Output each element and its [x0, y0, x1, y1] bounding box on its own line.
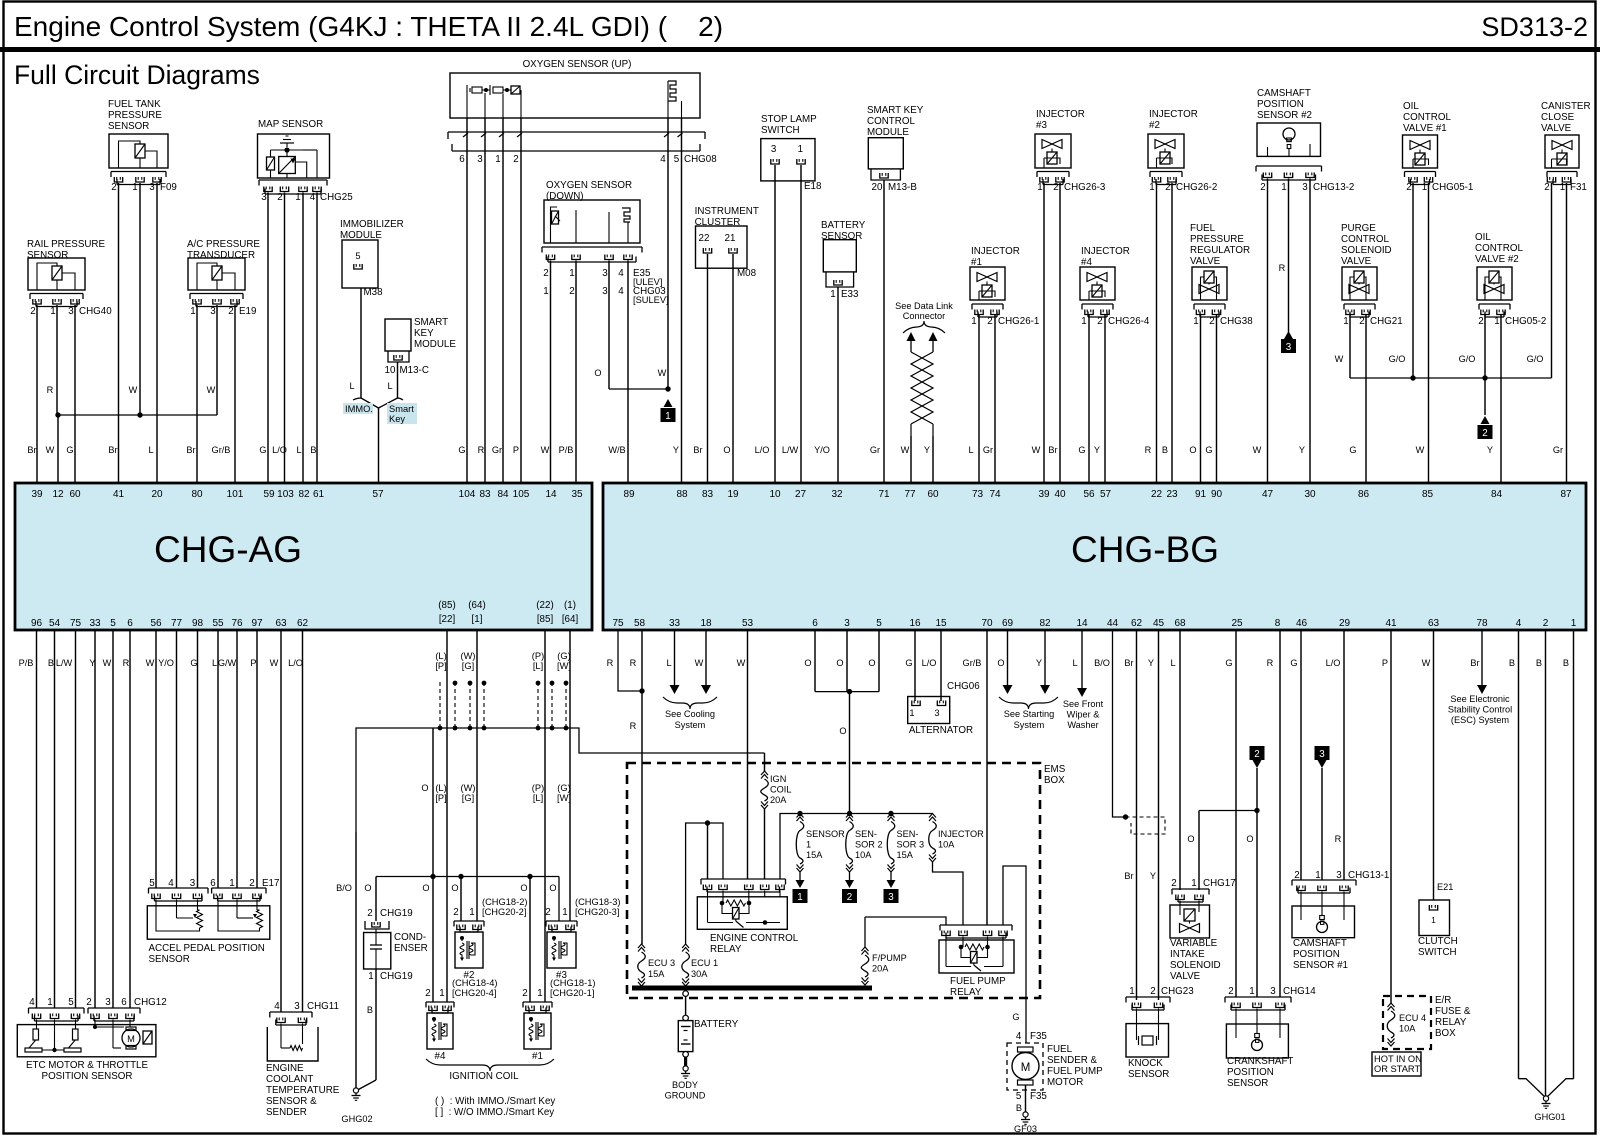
- wire RPS pin1 (R) to junction: [56, 305, 58, 415]
- svg-text:CHG17: CHG17: [1203, 878, 1236, 889]
- svg-text:3: 3: [149, 182, 155, 193]
- svg-text:M: M: [127, 1034, 135, 1044]
- svg-text:40: 40: [1054, 489, 1066, 500]
- svg-text:System: System: [675, 720, 706, 730]
- svg-text:1: 1: [1081, 316, 1086, 327]
- svg-text:69: 69: [1002, 618, 1014, 629]
- svg-text:6: 6: [121, 997, 127, 1008]
- svg-text:A/C PRESSURE: A/C PRESSURE: [187, 239, 260, 250]
- svg-text:L: L: [968, 445, 973, 455]
- svg-text:70: 70: [981, 618, 993, 629]
- svg-text:(P): (P): [532, 783, 544, 793]
- svg-text:R: R: [123, 658, 130, 668]
- svg-text:27: 27: [795, 489, 807, 500]
- svg-text:CHG26-1: CHG26-1: [998, 316, 1039, 327]
- svg-text:#2: #2: [1149, 120, 1160, 131]
- wire MAP pin4 to CHG-AG 61: [316, 193, 318, 484]
- svg-text:BODY: BODY: [672, 1080, 698, 1090]
- svg-text:IGNITION COIL: IGNITION COIL: [449, 1071, 519, 1082]
- svg-text:15A: 15A: [648, 969, 665, 979]
- svg-text:1: 1: [368, 971, 373, 982]
- svg-text:R: R: [1279, 263, 1286, 273]
- svg-text:SEN-: SEN-: [897, 829, 919, 839]
- svg-text:INTAKE: INTAKE: [1170, 949, 1205, 960]
- wire CCV pin1 to CHG-BG 87: [1566, 183, 1568, 483]
- svg-text:INJECTOR: INJECTOR: [971, 246, 1020, 257]
- wire CHG-BG 62 (Br) to knock sensor pin1: [1136, 630, 1138, 1000]
- connector block CHG-BG: [603, 483, 1586, 630]
- svg-text:(L): (L): [435, 783, 446, 793]
- svg-text:O: O: [1187, 834, 1194, 844]
- svg-text:Y: Y: [1148, 658, 1154, 668]
- svg-text:E/R: E/R: [1435, 995, 1451, 1006]
- svg-text:[L]: [L]: [533, 661, 543, 671]
- svg-text:1: 1: [569, 268, 574, 279]
- svg-text:L/O: L/O: [1326, 658, 1341, 668]
- svg-text:33: 33: [669, 618, 681, 629]
- wire FPRV pin2 to CHG-BG 90: [1216, 315, 1218, 483]
- svg-text:1: 1: [971, 316, 976, 327]
- svg-text:[64]: [64]: [562, 614, 579, 625]
- svg-text:(L): (L): [435, 651, 446, 661]
- svg-text:EMS: EMS: [1044, 764, 1066, 775]
- svg-text:R: R: [1145, 445, 1152, 455]
- flag 2 to crankshaft sensor: [1250, 746, 1265, 760]
- svg-text:45: 45: [1153, 618, 1165, 629]
- svg-text:2: 2: [1478, 316, 1483, 327]
- svg-text:ENGINE: ENGINE: [266, 1063, 304, 1074]
- svg-text:W: W: [1416, 445, 1425, 455]
- svg-text:SENSOR: SENSOR: [806, 829, 845, 839]
- svg-text:FUEL PUMP: FUEL PUMP: [950, 976, 1006, 987]
- svg-text:47: 47: [1262, 489, 1274, 500]
- svg-text:P: P: [1382, 658, 1388, 668]
- svg-text:1: 1: [562, 907, 567, 918]
- see starting system arrows: [1007, 630, 1009, 685]
- svg-text:61: 61: [313, 489, 325, 500]
- see cooling system arrows: [674, 630, 676, 685]
- svg-text:FUEL: FUEL: [1047, 1044, 1073, 1055]
- svg-text:Y: Y: [1094, 445, 1100, 455]
- svg-text:CHG26-3: CHG26-3: [1064, 182, 1106, 193]
- svg-text:G/O: G/O: [1459, 354, 1476, 364]
- svg-text:B: B: [310, 445, 316, 455]
- svg-text:Gr: Gr: [1553, 445, 1563, 455]
- svg-text:IMMOBILIZER: IMMOBILIZER: [340, 219, 404, 230]
- wire MAP pin2 to CHG-AG 103: [284, 193, 286, 484]
- E/R fuse and relay box (dashed): [1383, 996, 1431, 1049]
- svg-text:O: O: [723, 445, 730, 455]
- svg-text:76: 76: [231, 618, 243, 629]
- svg-text:(64): (64): [468, 600, 485, 611]
- wire cluster pin21 to CHG-BG 19: [732, 254, 734, 483]
- wire cluster pin22 to CHG-BG 83: [707, 254, 709, 483]
- svg-text:1: 1: [1571, 618, 1577, 629]
- svg-text:CHG11: CHG11: [307, 1001, 339, 1012]
- svg-text:CHG05-1: CHG05-1: [1432, 182, 1473, 193]
- ground GF03: [1023, 1112, 1028, 1117]
- svg-text:POSITION: POSITION: [1257, 99, 1304, 110]
- wire CHG-BG 78 (Br) arrow to ESC: [1481, 630, 1483, 685]
- svg-text:3: 3: [844, 618, 850, 629]
- coil O-supply horizontal: [376, 876, 559, 878]
- svg-text:20: 20: [872, 182, 883, 193]
- svg-text:W: W: [1422, 658, 1431, 668]
- svg-text:4: 4: [274, 1001, 280, 1012]
- svg-text:VALVE: VALVE: [1170, 971, 1201, 982]
- svg-text:OXYGEN SENSOR: OXYGEN SENSOR: [546, 180, 632, 191]
- svg-text:MODULE: MODULE: [414, 339, 456, 350]
- svg-text:POSITION SENSOR: POSITION SENSOR: [42, 1071, 133, 1082]
- svg-text:5: 5: [674, 154, 680, 165]
- svg-text:FUEL: FUEL: [1190, 223, 1216, 234]
- svg-text:39: 39: [1038, 489, 1050, 500]
- svg-text:74: 74: [989, 489, 1001, 500]
- svg-text:W: W: [270, 658, 279, 668]
- svg-text:44: 44: [1107, 618, 1119, 629]
- svg-text:W: W: [695, 658, 704, 668]
- wires through connector down to coils: [446, 682, 448, 1002]
- wire CHG-BG 58 (R) to ECU3 fuse: [641, 630, 643, 944]
- wire MAP pin3 to CHG-AG 59: [267, 193, 269, 484]
- svg-text:39: 39: [31, 489, 43, 500]
- svg-text:FUEL PUMP: FUEL PUMP: [1047, 1066, 1103, 1077]
- svg-text:Br: Br: [1048, 445, 1057, 455]
- svg-text:(CHG18-4): (CHG18-4): [452, 978, 497, 988]
- wire data link W to CHG-BG 77: [910, 436, 912, 483]
- svg-text:GROUND: GROUND: [665, 1091, 706, 1101]
- wire O2down pin2 to CHG-AG 14: [550, 261, 552, 484]
- svg-text:Y: Y: [1150, 871, 1156, 881]
- svg-text:O: O: [364, 883, 371, 893]
- svg-text:CHG08: CHG08: [684, 154, 717, 165]
- svg-text:L: L: [1170, 658, 1175, 668]
- svg-text:MODULE: MODULE: [867, 127, 909, 138]
- wire CHG-BG 16 to alternator pin1: [914, 630, 916, 701]
- svg-text:#3: #3: [1036, 120, 1047, 131]
- svg-text:See Electronic: See Electronic: [1450, 694, 1510, 704]
- svg-text:G/W: G/W: [218, 658, 237, 668]
- wire O to coil2: [460, 877, 462, 922]
- ignition coil signal wires from CHG-AG: [446, 630, 448, 682]
- svg-text:P: P: [513, 445, 519, 455]
- svg-text:O: O: [839, 726, 846, 736]
- svg-text:3: 3: [602, 268, 608, 279]
- flag 3 to camshaft sensor #1: [1315, 746, 1330, 760]
- svg-text:2: 2: [1544, 182, 1549, 193]
- wire OCV1 pin2 (G/O) to junction: [1412, 183, 1414, 378]
- svg-text:COND-: COND-: [394, 932, 426, 943]
- svg-text:W: W: [658, 368, 667, 378]
- svg-text:Y/O: Y/O: [814, 445, 830, 455]
- svg-text:[CHG20-2]: [CHG20-2]: [482, 907, 526, 917]
- svg-text:78: 78: [1476, 618, 1488, 629]
- svg-text:B/O: B/O: [1094, 658, 1110, 668]
- svg-text:1: 1: [537, 988, 542, 999]
- svg-text:[CHG20-3]: [CHG20-3]: [575, 907, 619, 917]
- svg-text:[G]: [G]: [462, 793, 474, 803]
- svg-text:2: 2: [1150, 986, 1155, 997]
- svg-text:L: L: [296, 445, 301, 455]
- wire FTPS pin1 (W) to junction: [139, 183, 141, 415]
- svg-text:SWITCH: SWITCH: [761, 125, 800, 136]
- svg-text:5: 5: [355, 251, 360, 261]
- svg-text:ECU 1: ECU 1: [691, 958, 718, 968]
- svg-text:SENSOR #2: SENSOR #2: [1257, 110, 1312, 121]
- svg-text:1: 1: [1560, 182, 1565, 193]
- svg-text:O: O: [451, 883, 458, 893]
- svg-text:L/O: L/O: [288, 658, 303, 668]
- wire O2up pin6 to CHG-AG 104: [466, 118, 468, 483]
- svg-text:Y: Y: [1487, 445, 1493, 455]
- svg-text:1: 1: [665, 411, 670, 422]
- svg-text:35: 35: [571, 489, 583, 500]
- wires CHG-AG to ETC motor & throttle position sensor: [36, 630, 38, 1008]
- svg-text:[CHG20-4]: [CHG20-4]: [452, 988, 496, 998]
- svg-text:Wiper &: Wiper &: [1067, 710, 1100, 720]
- wire FTPS pin2 to CHG-AG 41: [118, 183, 120, 483]
- svg-text:14: 14: [545, 489, 557, 500]
- svg-text:CLUTCH: CLUTCH: [1418, 936, 1458, 947]
- svg-text:P/B: P/B: [19, 658, 34, 668]
- ECU 1 fuse 30A: [682, 944, 689, 948]
- svg-text:22: 22: [699, 233, 710, 244]
- svg-text:(CHG18-1): (CHG18-1): [550, 978, 595, 988]
- svg-text:3: 3: [1319, 749, 1325, 760]
- svg-text:88: 88: [676, 489, 688, 500]
- svg-text:CRANKSHAFT: CRANKSHAFT: [1227, 1056, 1293, 1067]
- engine control relay: [701, 878, 786, 880]
- svg-text:2: 2: [522, 988, 527, 999]
- svg-text:PURGE: PURGE: [1341, 223, 1376, 234]
- svg-text:G: G: [1205, 445, 1212, 455]
- svg-text:O: O: [997, 658, 1004, 668]
- svg-text:M13-B: M13-B: [888, 182, 917, 193]
- svg-text:54: 54: [49, 618, 61, 629]
- wire RPS pin2 to CHG-AG 39: [36, 305, 38, 483]
- svg-text:VALVE #2: VALVE #2: [1475, 254, 1519, 265]
- svg-text:Y: Y: [1036, 658, 1042, 668]
- wire O2up pin4 (W) to flag 1: [667, 118, 669, 389]
- svg-text:W: W: [146, 658, 155, 668]
- svg-text:(CHG18-3): (CHG18-3): [575, 897, 620, 907]
- svg-text:CHG23: CHG23: [1161, 986, 1194, 997]
- wire ACPT pin1 to CHG-AG 80: [196, 305, 198, 483]
- wire O to coil4: [432, 877, 434, 1003]
- svg-text:CHG14: CHG14: [1283, 986, 1316, 997]
- svg-text:59: 59: [263, 489, 275, 500]
- svg-text:75: 75: [70, 618, 82, 629]
- svg-text:Br: Br: [693, 445, 702, 455]
- svg-text:F31: F31: [1570, 182, 1587, 193]
- wire PCSV pin1 (W) to G/O junction: [1349, 315, 1351, 378]
- svg-text:1: 1: [1422, 182, 1427, 193]
- svg-text:20A: 20A: [770, 795, 787, 805]
- thick ground bus in EMS box: [632, 986, 872, 991]
- svg-text:77: 77: [904, 489, 916, 500]
- svg-text:VARIABLE: VARIABLE: [1170, 938, 1218, 949]
- wire flag2 junction down to crankshaft pin1: [1256, 811, 1258, 998]
- INJECTOR fuse 10A: [929, 814, 936, 818]
- svg-text:CHG38: CHG38: [1220, 316, 1253, 327]
- wire CMP2 pin3 to CHG-BG 30: [1309, 179, 1311, 484]
- svg-text:2: 2: [1406, 182, 1411, 193]
- svg-text:See Front: See Front: [1063, 699, 1104, 709]
- svg-text:3: 3: [210, 306, 216, 317]
- svg-text:SOLENOID: SOLENOID: [1170, 960, 1221, 971]
- svg-text:6: 6: [812, 618, 818, 629]
- wire O2up pin1 to CHG-AG 84: [502, 118, 504, 483]
- F/PUMP fuse 20A: [865, 917, 946, 925]
- wires CHG-AG to accel pedal position sensor: [155, 630, 157, 888]
- svg-text:103: 103: [277, 489, 294, 500]
- wire CHG-BG 46 (G) to CMP1 pin2: [1300, 630, 1302, 880]
- svg-text:3: 3: [105, 997, 111, 1008]
- svg-text:(G): (G): [557, 651, 570, 661]
- svg-text:F09: F09: [160, 182, 177, 193]
- wire G/O junction down to flag 2: [1484, 378, 1486, 415]
- svg-text:O: O: [868, 658, 875, 668]
- svg-text:1: 1: [1129, 986, 1134, 997]
- svg-text:SOLENOID: SOLENOID: [1341, 245, 1392, 256]
- svg-text:2: 2: [1209, 316, 1214, 327]
- wire injector4 pin2 to CHG-BG 57: [1104, 315, 1106, 483]
- svg-text:B: B: [1536, 658, 1542, 668]
- svg-text:CHG-AG: CHG-AG: [154, 529, 302, 570]
- svg-text:SENSOR: SENSOR: [27, 250, 68, 261]
- svg-text:1: 1: [295, 192, 300, 203]
- ground GHG02: [353, 1088, 358, 1093]
- svg-text:1: 1: [439, 988, 444, 999]
- svg-text:20: 20: [151, 489, 163, 500]
- svg-text:2: 2: [1482, 428, 1487, 439]
- svg-text:2: 2: [1171, 878, 1176, 889]
- ground wires CHG-BG 4/2/1 to GHG01: [1518, 630, 1520, 1079]
- svg-text:90: 90: [1211, 489, 1223, 500]
- svg-text:3: 3: [261, 192, 267, 203]
- svg-text:1: 1: [1193, 316, 1198, 327]
- wire flag3 to CMP1 pin1: [1321, 768, 1323, 880]
- svg-text:E18: E18: [804, 181, 822, 192]
- svg-text:L: L: [148, 445, 153, 455]
- svg-text:Full Circuit Diagrams: Full Circuit Diagrams: [14, 60, 260, 90]
- svg-text:2: 2: [847, 892, 852, 903]
- svg-text:1: 1: [50, 306, 55, 317]
- svg-text:85: 85: [1422, 489, 1434, 500]
- wire injector3 pin2 to CHG-BG 40: [1059, 183, 1061, 483]
- svg-text:CANISTER: CANISTER: [1541, 101, 1591, 112]
- svg-text:(1): (1): [564, 600, 576, 611]
- IGN COIL 20A fuse: [761, 771, 768, 775]
- svg-text:[P]: [P]: [435, 661, 446, 671]
- svg-text:BOX: BOX: [1435, 1028, 1456, 1039]
- svg-text:G: G: [190, 658, 197, 668]
- svg-text:#1: #1: [532, 1051, 543, 1062]
- svg-text:R: R: [1335, 834, 1342, 844]
- svg-text:[22]: [22]: [439, 614, 456, 625]
- svg-text:STOP LAMP: STOP LAMP: [761, 114, 817, 125]
- svg-text:SENSOR #1: SENSOR #1: [1293, 960, 1348, 971]
- wire injector1 pin1 (L) to CHG-BG 73: [978, 315, 980, 483]
- svg-text:ACCEL PEDAL POSITION: ACCEL PEDAL POSITION: [149, 943, 265, 954]
- svg-text:Gr/B: Gr/B: [212, 445, 231, 455]
- svg-text:L: L: [349, 381, 354, 391]
- svg-text:15: 15: [935, 618, 947, 629]
- svg-text:F/PUMP: F/PUMP: [872, 953, 907, 963]
- svg-text:SD313-2: SD313-2: [1481, 12, 1588, 42]
- svg-text:4: 4: [618, 286, 624, 297]
- svg-text:1: 1: [190, 306, 195, 317]
- svg-text:77: 77: [171, 618, 183, 629]
- wire motor to ground GF03: [1025, 1085, 1027, 1112]
- svg-text:CHG26-4: CHG26-4: [1108, 316, 1150, 327]
- svg-text:10A: 10A: [1399, 1024, 1416, 1034]
- svg-text:57: 57: [372, 489, 384, 500]
- svg-text:W: W: [737, 658, 746, 668]
- svg-text:1: 1: [1494, 316, 1499, 327]
- svg-text:INJECTOR: INJECTOR: [938, 829, 984, 839]
- wire ECU fuse rail to battery: [683, 991, 689, 997]
- svg-text:See Starting: See Starting: [1004, 709, 1055, 719]
- svg-text:4: 4: [29, 997, 35, 1008]
- svg-text:1: 1: [830, 289, 835, 300]
- wire CHG-BG 68 (L) to VISV pin2: [1179, 630, 1181, 890]
- svg-text:F35: F35: [1030, 1091, 1047, 1102]
- svg-text:(G): (G): [557, 783, 570, 793]
- svg-text:CHG05-2: CHG05-2: [1505, 316, 1546, 327]
- svg-text:L/O: L/O: [755, 445, 770, 455]
- wire PCSV pin2 to CHG-BG 86: [1365, 315, 1367, 483]
- svg-text:2: 2: [1053, 182, 1058, 193]
- flag 3 below sensor3 fuse: [890, 872, 892, 880]
- svg-text:60: 60: [69, 489, 81, 500]
- wire CHG-BG 44 (B/O) knock sensor shield: [1113, 630, 1126, 817]
- svg-text:57: 57: [1100, 489, 1112, 500]
- svg-text:TEMPERATURE: TEMPERATURE: [266, 1085, 340, 1096]
- svg-text:OIL: OIL: [1475, 232, 1491, 243]
- svg-text:G: G: [259, 445, 266, 455]
- svg-text:SWITCH: SWITCH: [1418, 947, 1457, 958]
- svg-text:BATTERY: BATTERY: [821, 220, 866, 231]
- svg-text:ECU 3: ECU 3: [648, 958, 675, 968]
- svg-text:W/B: W/B: [608, 445, 625, 455]
- wire injector fuse to fuel pump relay pin2: [933, 862, 964, 925]
- svg-text:PRESSURE: PRESSURE: [1190, 234, 1244, 245]
- svg-text:53: 53: [742, 618, 754, 629]
- svg-text:CLOSE: CLOSE: [1541, 112, 1575, 123]
- svg-text:5: 5: [110, 618, 116, 629]
- svg-text:W: W: [1335, 354, 1344, 364]
- svg-text:INSTRUMENT: INSTRUMENT: [695, 206, 759, 217]
- svg-text:3: 3: [68, 306, 74, 317]
- svg-text:[SULEV]: [SULEV]: [633, 295, 669, 305]
- wire battery sensor to CHG-BG 32: [837, 287, 839, 483]
- svg-text:68: 68: [1174, 618, 1186, 629]
- wire condenser B to ground GHG02: [375, 969, 377, 1080]
- svg-text:2: 2: [453, 907, 458, 918]
- wire O2up pin5 (Y) to CHG-BG 88: [681, 118, 683, 483]
- fuel pump relay: [940, 924, 1012, 926]
- wire stop lamp pin3 to CHG-BG 10: [774, 165, 776, 483]
- svg-text:1: 1: [1149, 182, 1154, 193]
- svg-text:2: 2: [1359, 316, 1364, 327]
- svg-text:G: G: [1225, 658, 1232, 668]
- svg-text:Gr: Gr: [983, 445, 993, 455]
- wire CHG-BG 75 + 58 R junction: [618, 630, 642, 691]
- wire O2down pin3 (O) to flag1 junction: [608, 261, 610, 390]
- svg-text:G/O: G/O: [1527, 354, 1544, 364]
- svg-text:O: O: [421, 783, 428, 793]
